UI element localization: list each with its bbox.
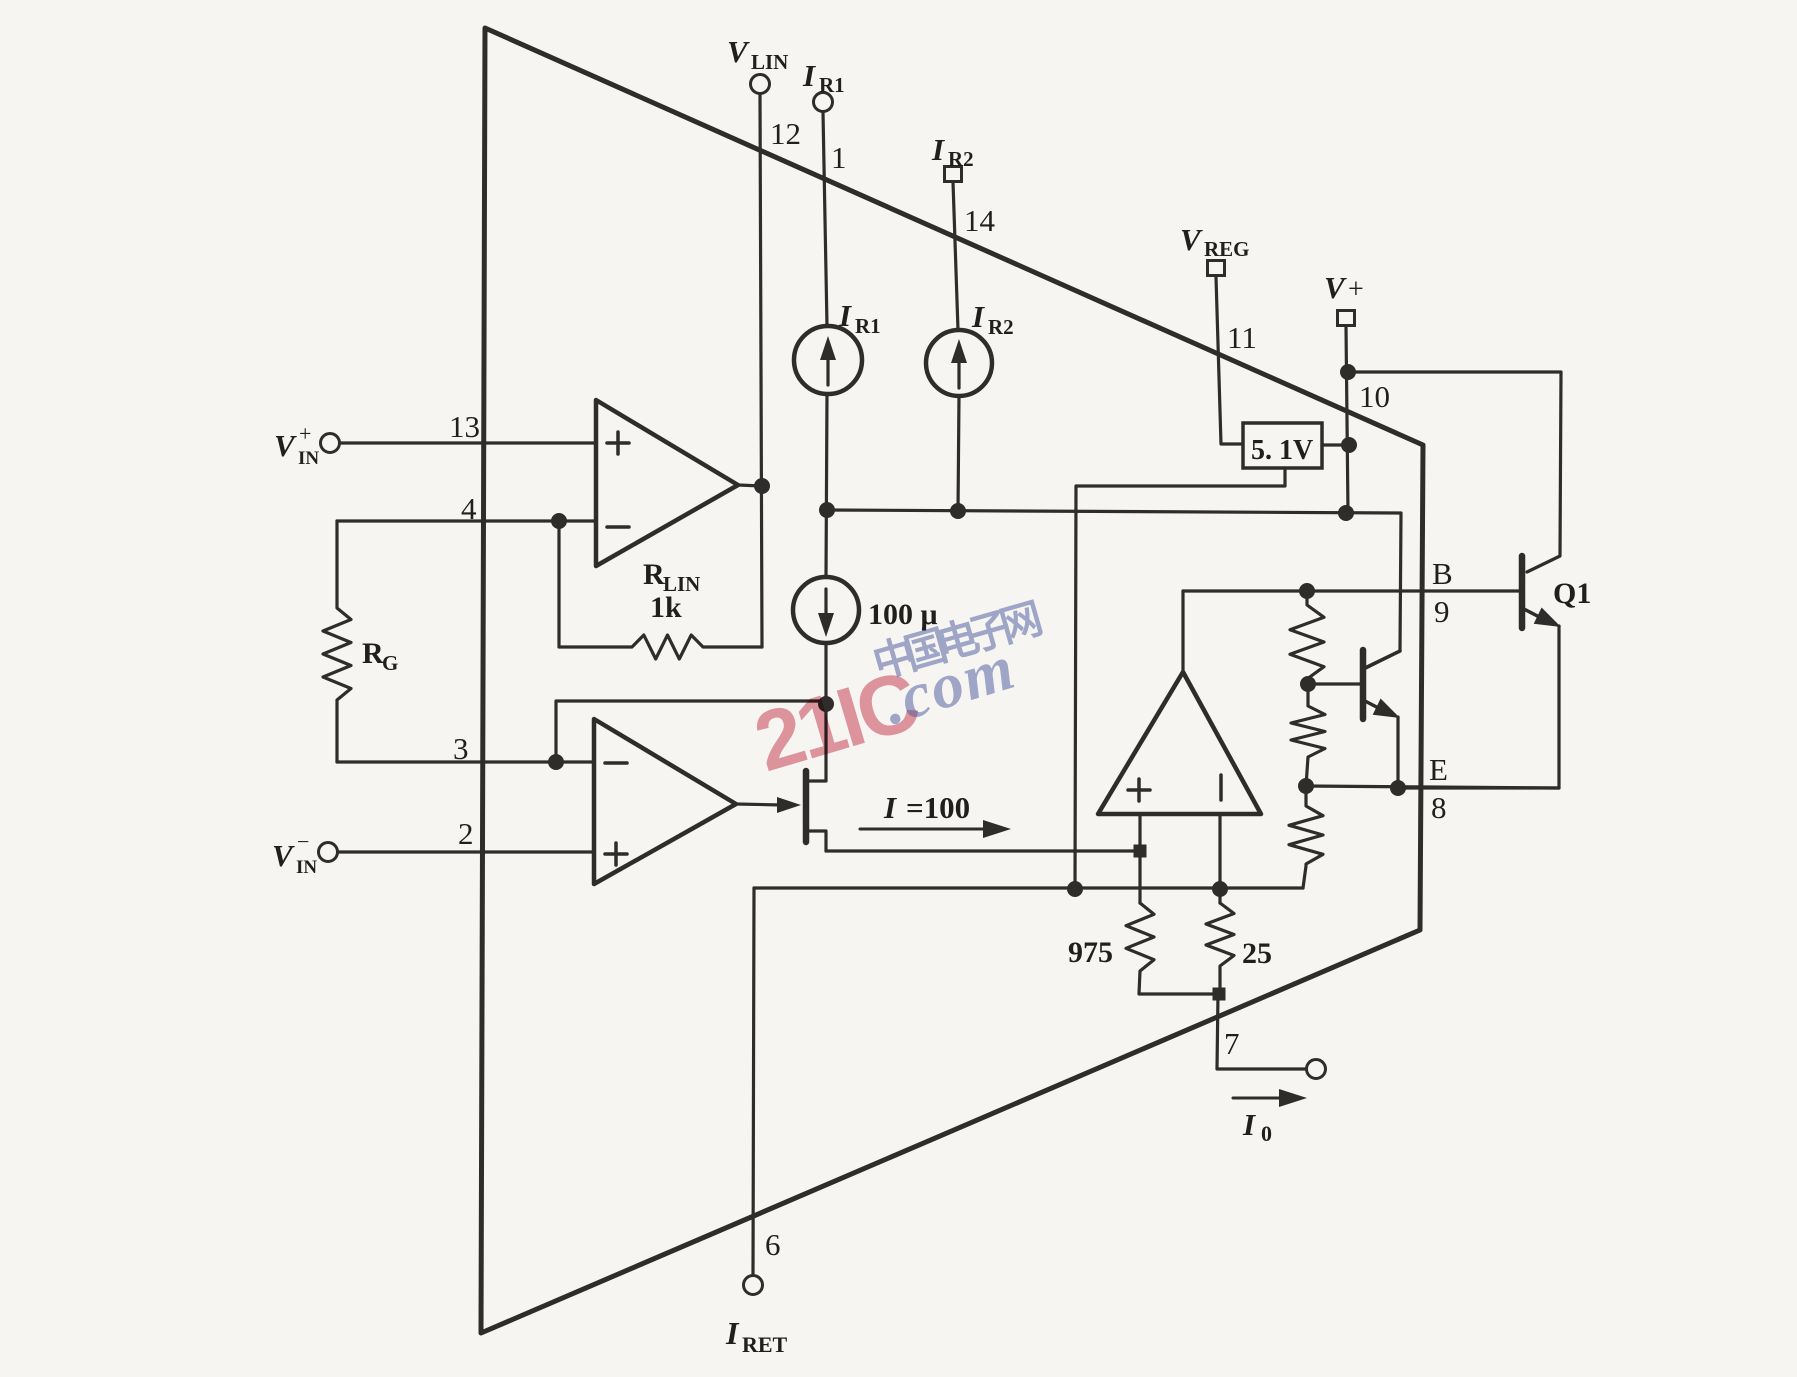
- label RG: [362, 637, 398, 675]
- node Q2 emitter on E line: [1390, 780, 1406, 796]
- wire pin11 VREG to 5.1V reference: [1216, 277, 1243, 444]
- svg-text:V: V: [1180, 222, 1203, 257]
- resistor chain lower: [1289, 786, 1323, 888]
- svg-text:REG: REG: [1204, 237, 1250, 261]
- svg-text:8: 8: [1431, 790, 1447, 825]
- wire A3 noninverting input down: [1138, 814, 1141, 903]
- label IR2 source: [971, 299, 1014, 339]
- svg-text:9: 9: [1434, 594, 1450, 629]
- terminal pin7 I0: [1307, 1060, 1326, 1079]
- wire pin3 to A2 inverting input: [337, 760, 594, 763]
- node A3 noninverting input junction: [1134, 845, 1147, 858]
- svg-text:I: I: [971, 299, 985, 334]
- wire pin7 to output terminal: [1217, 994, 1306, 1069]
- pin number 8: [1431, 790, 1447, 825]
- IC package boundary outline: [481, 28, 1423, 1333]
- label V-IN: [272, 829, 317, 878]
- transistor Q2 base bar: [1360, 650, 1367, 719]
- wire B line from A3 to Q1 base: [1183, 589, 1522, 592]
- node A1 inverting input junction: [551, 513, 567, 529]
- svg-text:7: 7: [1224, 1026, 1240, 1061]
- node chain junction upper: [1300, 676, 1316, 692]
- arrowhead JFET gate: [777, 797, 801, 813]
- wire pin10 V+ vertical: [1346, 327, 1348, 513]
- pin number 4: [461, 491, 477, 526]
- wire A3 inverting input down: [1218, 814, 1221, 903]
- svg-text:E: E: [1429, 752, 1448, 787]
- terminal V+ pin10: [1338, 311, 1355, 326]
- wire pin14 from terminal to current source IR2: [953, 182, 958, 330]
- op-amp A2: [594, 719, 736, 884]
- label B: [1432, 556, 1453, 591]
- wire Q2 emitter down to E line: [1396, 717, 1399, 788]
- svg-text:12: 12: [770, 116, 801, 151]
- node A2 inverting input junction: [548, 754, 564, 770]
- svg-text:V: V: [274, 428, 297, 463]
- node chain junction lower on E line: [1298, 778, 1314, 794]
- svg-text:I: I: [1242, 1107, 1256, 1142]
- wire Q1 emitter down to E line: [1399, 626, 1559, 788]
- svg-text:1: 1: [831, 140, 847, 175]
- wire Q1 emitter: [1524, 609, 1549, 622]
- pin number 10: [1359, 379, 1390, 414]
- node pin1 line on internal rail: [819, 502, 835, 518]
- pin number 1: [831, 140, 847, 175]
- terminal pin6 IRET: [744, 1276, 763, 1295]
- resistor 975: [1126, 903, 1213, 994]
- node resistor bottoms junction: [1213, 988, 1226, 1001]
- svg-text:V: V: [727, 34, 750, 69]
- svg-text:R: R: [643, 558, 665, 591]
- current source 100u: [793, 577, 859, 643]
- svg-text:Q1: Q1: [1553, 577, 1591, 610]
- svg-text:11: 11: [1227, 320, 1257, 355]
- wire Q2 emitter: [1365, 701, 1390, 714]
- wire common bus: [754, 886, 1303, 889]
- wire 5.1V output to V+ line: [1322, 443, 1349, 446]
- arrowhead Q2 emitter: [1373, 699, 1400, 719]
- node common bus at 5.1V rail: [1067, 881, 1083, 897]
- wire JFET source lead: [806, 831, 826, 851]
- wire V+ to Q1 collector: [1348, 372, 1561, 572]
- wire pin2 V-IN to A2 noninverting input: [338, 850, 594, 853]
- pin number 3: [453, 731, 469, 766]
- svg-text:V: V: [1324, 270, 1347, 305]
- wire A2 inverting input up to JFET drain node: [556, 701, 826, 762]
- wire Q2 collector: [1365, 651, 1400, 668]
- svg-text:IN: IN: [298, 448, 319, 469]
- resistor RG: [323, 521, 351, 762]
- label E: [1429, 752, 1448, 787]
- svg-text:R2: R2: [988, 315, 1014, 339]
- svg-text:I: I: [838, 298, 852, 333]
- svg-text:R1: R1: [855, 314, 881, 338]
- node pin14 line on internal rail: [950, 503, 966, 519]
- label RLIN: [643, 558, 700, 596]
- node common bus at A3 inverting: [1212, 881, 1228, 897]
- wire IR1 source to 100u source: [826, 394, 827, 577]
- svg-text:I: I: [725, 1315, 740, 1351]
- resistor chain upper: [1290, 591, 1324, 684]
- svg-text:+: +: [1348, 274, 1364, 305]
- label IR1 pin: [802, 58, 845, 97]
- current source IR1: [794, 326, 862, 394]
- wire pin6 IRET vertical: [753, 888, 754, 1275]
- terminal V+IN: [321, 434, 340, 453]
- label IR2 pin: [931, 132, 974, 171]
- op-amp A1: [596, 400, 738, 566]
- transistor JFET Q3 channel bar: [803, 771, 810, 842]
- terminal V-IN: [319, 843, 338, 862]
- label V+: [1324, 270, 1364, 305]
- svg-text:+: +: [299, 421, 311, 446]
- svg-text:14: 14: [964, 203, 996, 238]
- svg-text:25: 25: [1242, 937, 1272, 970]
- svg-text:I: I: [802, 58, 816, 93]
- wire pin13 V+IN to A1 noninverting input: [340, 441, 596, 444]
- pin number 6: [765, 1227, 781, 1262]
- wire A1 feedback loop with resistor RLIN: [559, 521, 762, 659]
- svg-text:R2: R2: [948, 147, 974, 171]
- resistor chain middle: [1291, 684, 1325, 786]
- label Q1: [1553, 577, 1591, 610]
- arrowhead Q1 emitter: [1534, 608, 1561, 628]
- resistor 25: [1206, 903, 1234, 994]
- value 1k: [650, 591, 682, 624]
- node V+ bottom junction: [1338, 505, 1354, 521]
- svg-text:R1: R1: [819, 73, 845, 97]
- wire JFET source to A3 noninverting input: [826, 849, 1140, 852]
- wire pin12 VLIN vertical: [760, 94, 762, 647]
- svg-text:4: 4: [461, 491, 477, 526]
- arrow current I direction: [860, 820, 1011, 838]
- svg-text:3: 3: [453, 731, 469, 766]
- svg-text:975: 975: [1068, 936, 1113, 969]
- voltage reference 5.1V box: [1243, 423, 1322, 468]
- pin number 9: [1434, 594, 1450, 629]
- svg-text:−: −: [297, 829, 309, 854]
- wire Q2 base: [1308, 682, 1363, 685]
- transistor Q1 base bar: [1519, 556, 1526, 628]
- pin number 14: [964, 203, 996, 238]
- node A1 output on VLIN line: [754, 478, 770, 494]
- wire IR2 source down to internal rail: [958, 396, 959, 511]
- svg-text:10: 10: [1359, 379, 1390, 414]
- svg-text:LIN: LIN: [751, 50, 788, 74]
- label I=100: [883, 790, 970, 825]
- wire A2 output to JFET gate: [736, 804, 782, 805]
- label I0: [1242, 1107, 1272, 1146]
- svg-text:6: 6: [765, 1227, 781, 1262]
- label IRET: [725, 1315, 788, 1357]
- wire E line: [1306, 786, 1559, 788]
- svg-text:=100: =100: [906, 790, 970, 825]
- pin number 12: [770, 116, 801, 151]
- svg-text:2: 2: [458, 816, 474, 851]
- node V+ top junction: [1340, 364, 1356, 380]
- arrow I0 direction: [1233, 1089, 1307, 1107]
- label VLIN: [727, 34, 788, 74]
- label 100u: [868, 598, 938, 631]
- wire 5.1V bottom tap to common rail: [1075, 468, 1285, 889]
- current source IR2: [926, 330, 992, 396]
- svg-text:0: 0: [1261, 1121, 1272, 1146]
- wire pin1 from terminal to current source IR1: [823, 112, 827, 326]
- svg-text:5. 1V: 5. 1V: [1251, 435, 1313, 466]
- pin number 11: [1227, 320, 1257, 355]
- terminal VREG pin11: [1208, 261, 1225, 276]
- wire internal rail to Q2 collector: [827, 510, 1401, 668]
- terminal IR2 pin14: [945, 167, 962, 182]
- wire A1 output to VLIN line: [738, 485, 762, 486]
- label 25: [1242, 937, 1272, 970]
- terminal IR1 pin1: [814, 93, 833, 112]
- pin number 7: [1224, 1026, 1240, 1061]
- svg-text:1k: 1k: [650, 591, 682, 624]
- svg-text:B: B: [1432, 556, 1453, 591]
- watermark 21IC.com: [744, 595, 1045, 790]
- svg-text:13: 13: [449, 409, 480, 444]
- wire 100u source to JFET drain: [806, 643, 826, 781]
- label IR1 source: [838, 298, 881, 338]
- pin number 13: [449, 409, 480, 444]
- node 5.1V output on V+ line: [1341, 437, 1357, 453]
- svg-text:I: I: [883, 790, 897, 825]
- terminal VLIN pin12: [751, 75, 770, 94]
- node JFET drain feedback junction: [818, 696, 834, 712]
- wire pin4 to A1 inverting input: [337, 519, 596, 522]
- svg-text:V: V: [272, 838, 295, 873]
- svg-text:IN: IN: [296, 857, 317, 878]
- label VREG: [1180, 222, 1250, 261]
- wire A3 output to B line: [1181, 591, 1184, 672]
- svg-text:I: I: [931, 132, 945, 167]
- label 975: [1068, 936, 1113, 969]
- node chain top on B line: [1299, 583, 1315, 599]
- op-amp A3: [1098, 672, 1261, 814]
- label V+IN: [274, 421, 319, 469]
- pin number 2: [458, 816, 474, 851]
- svg-text:G: G: [382, 651, 398, 675]
- svg-text:RET: RET: [742, 1332, 788, 1357]
- svg-text:R: R: [362, 637, 384, 670]
